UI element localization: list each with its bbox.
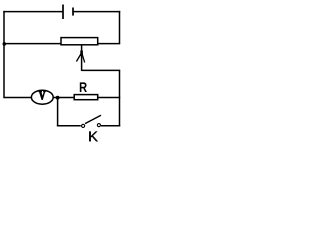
- switch K blade: [85, 115, 101, 123]
- resistor R label: [80, 82, 87, 92]
- wire wiper horizontal: [82, 69, 121, 71]
- rheostat RP body: [61, 38, 98, 45]
- wire voltmeter to node: [53, 97, 74, 99]
- voltmeter V body: [31, 90, 53, 104]
- node junction dot middle: [56, 96, 60, 100]
- wire voltmeter row left: [4, 97, 32, 99]
- wire top-right horizontal: [73, 11, 120, 13]
- wire right vertical upper: [119, 11, 121, 44]
- wire rheostat left terminal: [3, 43, 61, 45]
- wire resistor right: [98, 97, 121, 99]
- node junction dot left: [3, 42, 7, 46]
- switch K label: [89, 132, 98, 142]
- wiper arrowhead right leg: [82, 54, 85, 63]
- resistor R body: [74, 95, 98, 100]
- switch K right contact: [97, 124, 100, 127]
- wire switch left: [57, 125, 81, 127]
- battery B1 short plate: [72, 8, 74, 16]
- wire right vertical lower: [119, 70, 121, 126]
- wire node down to switch: [57, 98, 59, 127]
- wire rheostat right terminal: [98, 43, 121, 45]
- wire left vertical: [3, 11, 5, 98]
- voltmeter V label: [39, 91, 45, 99]
- wire switch right: [101, 125, 120, 127]
- wiper arrowhead left leg: [76, 54, 81, 62]
- battery B1 long plate: [62, 5, 64, 20]
- wiper arrow stem: [81, 45, 83, 71]
- wire top-left horizontal: [3, 11, 63, 13]
- switch K left contact: [82, 124, 85, 127]
- wiper arrowhead apex: [80, 51, 83, 57]
